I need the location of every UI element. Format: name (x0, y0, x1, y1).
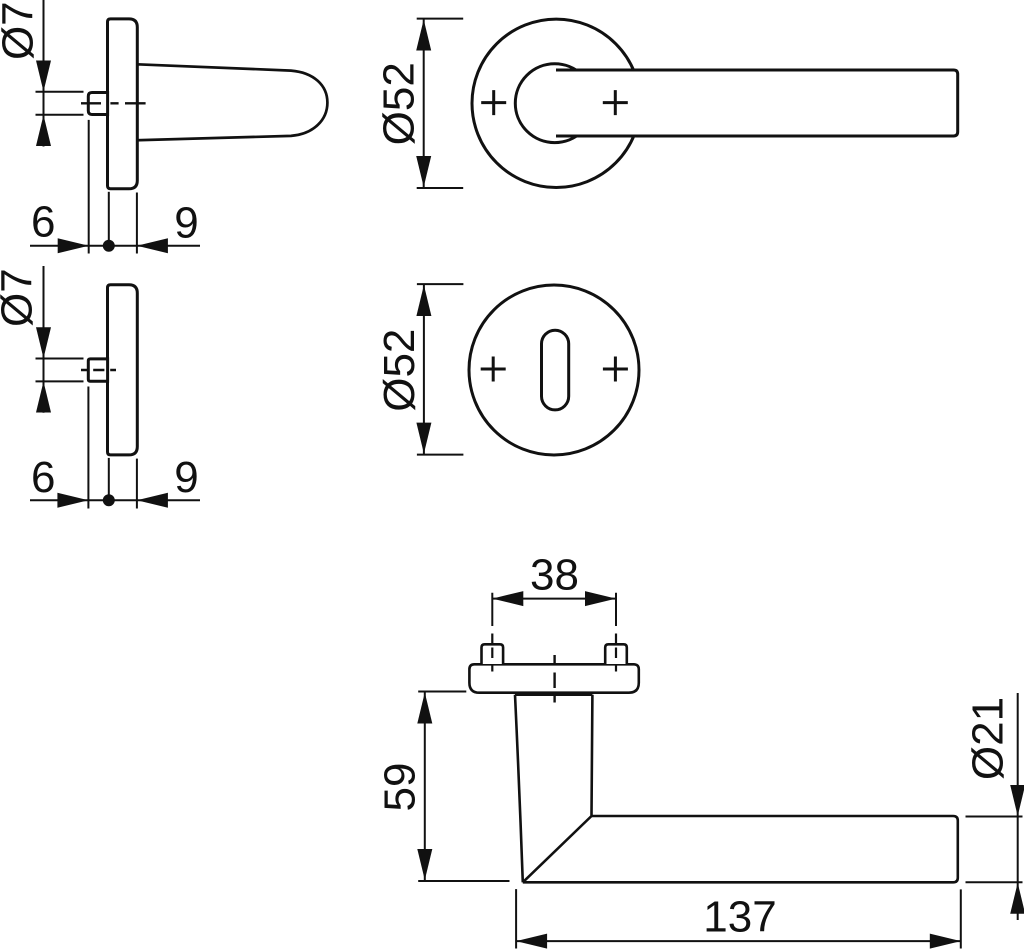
dimension Ø21 : lower arrow (1010, 883, 1024, 914)
rose (key escutcheon, side) (108, 285, 138, 455)
dimension 137 : dim line (516, 940, 961, 942)
post centerline right (dash) (615, 634, 617, 672)
rose (round escutcheon, side) (108, 19, 138, 189)
dimension Ø7 : dim line (43, 0, 45, 147)
svg-text:59: 59 (376, 763, 425, 812)
rose circle (469, 285, 639, 455)
screw post right (605, 644, 627, 664)
svg-text:38: 38 (530, 551, 579, 600)
dimension 59 : top arrow (417, 693, 432, 724)
keyhole slot (542, 330, 569, 410)
dimension 38 : left arrow (492, 591, 523, 606)
dimension origin dot (103, 494, 115, 506)
dimension Ø52 : bottom arrow (416, 423, 431, 454)
extension line from rose left (108, 458, 110, 500)
dimension Ø52 : top arrow (416, 20, 431, 51)
extension line from spindle left (88, 120, 90, 254)
centerline (dash-dot) (81, 369, 116, 371)
dimension Ø52 : bottom tick (417, 454, 464, 456)
svg-text:Ø7: Ø7 (0, 268, 42, 327)
mounting plate (469, 664, 638, 692)
dimension 6 : arrow (57, 493, 88, 508)
dimension Ø21 : upper arrow (1010, 785, 1024, 816)
svg-text:6: 6 (31, 198, 55, 247)
svg-text:137: 137 (703, 893, 776, 942)
svg-text:Ø21: Ø21 (964, 697, 1013, 780)
dimension 9 : arrow (137, 493, 168, 508)
dimension 9 : arrow (137, 238, 168, 253)
dimension Ø7 : upper arrow (36, 61, 51, 92)
svg-text:9: 9 (174, 453, 198, 502)
svg-text:9: 9 (174, 199, 198, 248)
dimension Ø52 : bottom tick (417, 187, 464, 189)
dimension Ø52 : top arrow (416, 285, 431, 316)
svg-text:Ø52: Ø52 (375, 329, 424, 412)
extension line from rose left (108, 192, 110, 246)
dimension 59 : top tick (418, 691, 466, 693)
dimension 6/9 : dim line (30, 245, 200, 247)
dimension Ø52 : dim line (423, 19, 425, 188)
dimension Ø52 : bottom arrow (416, 156, 431, 187)
extension line from stub left (87, 387, 89, 509)
dimension Ø52 : top tick (417, 18, 464, 20)
dimension 6 : arrow (58, 238, 89, 253)
screw mark left (+) (481, 90, 506, 115)
dimension 137 : right arrow (930, 934, 961, 949)
screw mark right (+) (603, 90, 628, 115)
dimension Ø7 : lower arrow (36, 115, 51, 146)
svg-text:Ø7: Ø7 (0, 1, 43, 60)
screw mark right (+) (603, 357, 628, 382)
screw post left (482, 644, 504, 664)
dimension 59 : dim line (424, 692, 426, 881)
lever bar (523, 816, 958, 882)
dimension Ø7 : lower arrow (36, 382, 51, 413)
screw mark left (+) (481, 357, 506, 382)
dimension Ø52 : dim line (423, 285, 425, 455)
centerline (dash-dot) (81, 102, 146, 104)
dimension Ø7 : upper arrow (36, 327, 51, 358)
grip (tapered lever seen end-on) (137, 64, 327, 140)
dimension 38 : right arrow (585, 591, 616, 606)
dimension Ø21 : extension lines (966, 817, 1023, 883)
cylinder stub (88, 359, 107, 381)
dimension 59 : bottom tick (418, 880, 509, 882)
dimension Ø7 : extension lines (36, 92, 84, 115)
extension line from rose right (136, 459, 138, 509)
svg-text:6: 6 (31, 453, 55, 502)
rose circle (472, 19, 640, 187)
neck outline (515, 695, 592, 883)
svg-text:Ø52: Ø52 (375, 62, 424, 145)
extension line from rose right (136, 193, 138, 254)
neck circle (515, 64, 594, 143)
lever bar (556, 70, 958, 136)
dimension Ø21 : dim line (1017, 693, 1019, 920)
post centerline left (dash) (491, 634, 493, 672)
plate centerline (dash-dot) (553, 655, 555, 703)
neck (tapered) (515, 695, 592, 883)
dimension 6/9 : dim line (30, 499, 200, 501)
spindle stub (88, 93, 107, 115)
dimension 137 : left arrow (516, 934, 547, 949)
dimension 59 : bottom arrow (417, 849, 432, 880)
dimension 38 : dim line (492, 598, 616, 600)
dimension Ø7 : extension lines (36, 359, 84, 382)
dimension 137 : extension lines (516, 889, 961, 948)
dimension origin dot (103, 240, 115, 252)
dimension 38 : extension lines (492, 593, 616, 626)
dimension Ø7 : dim line (43, 266, 45, 413)
dimension Ø52 : top tick (417, 283, 464, 285)
